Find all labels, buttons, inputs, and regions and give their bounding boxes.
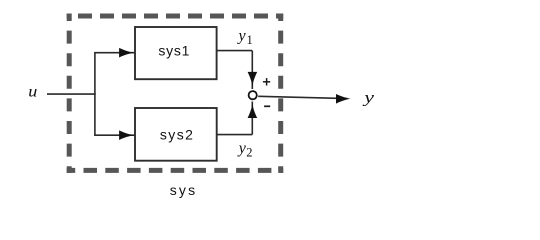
dashed subsystem boundary sys : top edge	[67, 14, 284, 19]
wire: output line to y	[258, 96, 347, 98]
svg-text:y: y	[237, 140, 247, 157]
arrowhead at output y	[336, 94, 351, 104]
dashed subsystem boundary sys : bottom edge	[67, 168, 284, 173]
svg-text:sys2: sys2	[160, 127, 193, 143]
svg-text:u: u	[28, 83, 37, 101]
block sys2	[135, 108, 217, 161]
wire: sys1 output horizontal	[217, 50, 253, 52]
svg-text:1: 1	[247, 33, 253, 47]
arrowhead down into summing junction	[248, 72, 258, 86]
wire: input u horizontal segment	[47, 93, 96, 95]
arrowhead into sys2	[119, 130, 134, 140]
svg-text:sys: sys	[170, 182, 195, 198]
dashed subsystem boundary sys : left edge	[67, 14, 72, 173]
summing junction circle	[249, 91, 257, 99]
plus sign at summing junction	[263, 81, 270, 83]
wire: sys1 output vertical down to summing junction	[251, 51, 253, 89]
wire: sys2 output horizontal	[217, 134, 253, 136]
arrowhead into sys1	[119, 48, 134, 58]
wire: branch vertical segment	[94, 53, 96, 136]
svg-text:y: y	[237, 28, 247, 45]
arrowhead up into summing junction	[248, 104, 258, 118]
svg-text:2: 2	[246, 146, 252, 160]
block sys1	[135, 27, 217, 79]
svg-text:y: y	[362, 90, 376, 107]
svg-text:sys1: sys1	[158, 43, 189, 59]
minus sign at summing junction	[264, 105, 270, 107]
dashed subsystem boundary sys : right edge	[278, 14, 283, 173]
wire: sys2 output vertical up to summing junction	[251, 102, 253, 135]
wire: into sys2	[94, 134, 135, 136]
wire: into sys1	[94, 52, 135, 54]
